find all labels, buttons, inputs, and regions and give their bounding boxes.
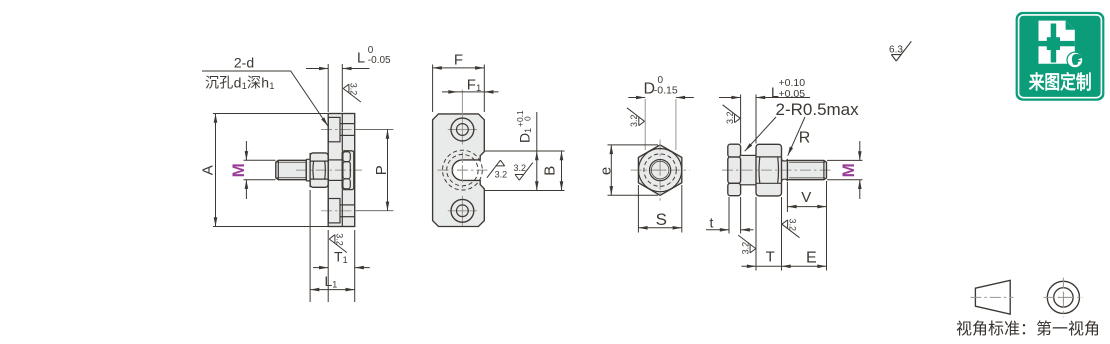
svg-text:3.2: 3.2 — [349, 83, 359, 96]
svg-text:0: 0 — [523, 116, 533, 121]
svg-text:P: P — [373, 165, 390, 175]
svg-text:F1: F1 — [467, 77, 481, 95]
svg-text:V: V — [801, 189, 811, 206]
svg-text:视角标准：第一视角: 视角标准：第一视角 — [956, 320, 1100, 338]
svg-text:L: L — [357, 51, 365, 67]
svg-text:-0.15: -0.15 — [654, 84, 678, 96]
svg-text:L1: L1 — [325, 273, 338, 290]
svg-text:沉孔d1深h1: 沉孔d1深h1 — [205, 74, 275, 91]
svg-text:M: M — [229, 163, 248, 177]
svg-text:t: t — [710, 214, 714, 230]
svg-text:3.2: 3.2 — [787, 218, 797, 231]
svg-text:R: R — [799, 129, 811, 146]
svg-text:T: T — [766, 249, 775, 266]
svg-text:B: B — [542, 166, 559, 176]
svg-text:6.3: 6.3 — [889, 45, 903, 56]
svg-text:2-R0.5max: 2-R0.5max — [776, 100, 860, 119]
svg-text:3.2: 3.2 — [725, 112, 735, 125]
svg-text:D1: D1 — [517, 128, 534, 143]
svg-text:M: M — [839, 163, 858, 177]
svg-text:S: S — [656, 210, 667, 229]
svg-text:3.2: 3.2 — [495, 169, 508, 179]
svg-text:+0.05: +0.05 — [779, 88, 806, 100]
svg-text:-0.05: -0.05 — [368, 55, 391, 66]
svg-text:F: F — [454, 51, 463, 68]
svg-text:3.2: 3.2 — [514, 163, 527, 173]
svg-text:2-d: 2-d — [234, 54, 254, 70]
svg-text:3.2: 3.2 — [335, 233, 345, 246]
svg-text:A: A — [200, 165, 217, 175]
svg-text:3.2: 3.2 — [740, 242, 750, 255]
svg-text:e: e — [598, 167, 615, 175]
svg-text:E: E — [806, 250, 817, 267]
svg-text:3.2: 3.2 — [629, 115, 639, 128]
svg-text:来图定制: 来图定制 — [1029, 71, 1092, 94]
